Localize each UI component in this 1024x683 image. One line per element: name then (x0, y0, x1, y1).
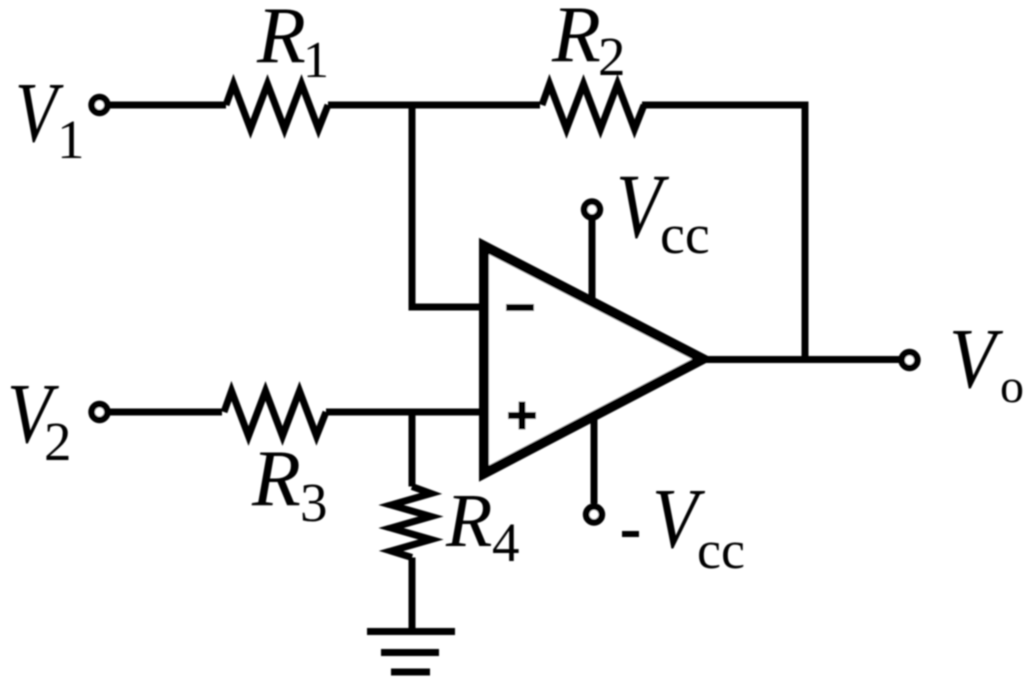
label R3 (251, 435, 328, 533)
wire R4 to ground (409, 558, 416, 632)
wire R1 to R2 (node A junction) (328, 102, 540, 109)
wire Vcc stem (589, 220, 596, 301)
label Vo (949, 310, 1024, 413)
node V2 input terminal (92, 404, 108, 420)
svg-text:cc: cc (697, 520, 745, 580)
svg-text:4: 4 (492, 512, 520, 573)
svg-text:2: 2 (598, 26, 626, 87)
wire node A down to inverting input (412, 105, 483, 307)
resistor R4 (391, 487, 431, 558)
svg-text:2: 2 (44, 411, 72, 472)
wire op-amp output to Vo terminal (699, 356, 899, 363)
svg-text:R: R (551, 0, 601, 79)
svg-text:cc: cc (660, 204, 710, 266)
label V2 (7, 367, 72, 472)
wire V1 terminal to R1 (110, 102, 226, 109)
node V1 input terminal (92, 97, 108, 113)
resistor R2 (542, 84, 644, 129)
op-amp U1 (484, 246, 703, 474)
svg-text:R: R (251, 435, 301, 523)
label R1 (256, 0, 329, 89)
svg-text:3: 3 (300, 472, 328, 533)
node Vcc terminal (584, 202, 600, 218)
svg-text:R: R (445, 479, 492, 563)
ground (367, 632, 455, 673)
wire R3 to noninverting input (node B junction) (326, 409, 483, 416)
svg-text:V: V (949, 310, 1004, 406)
wire node B down to R4 (409, 412, 416, 487)
label R2 (551, 0, 626, 87)
label -Vcc (622, 471, 745, 580)
resistor R3 (224, 391, 326, 436)
wire -Vcc stem (591, 414, 598, 504)
svg-text:1: 1 (57, 109, 85, 170)
label Vcc (616, 156, 710, 266)
label R4 (445, 479, 520, 573)
wire R2 to feedback corner, down to output node (642, 105, 805, 360)
resistor R1 (226, 84, 328, 129)
svg-text:o: o (1000, 360, 1024, 413)
op-amp U1 noninverting pin mark (508, 402, 536, 430)
node Vo output terminal (902, 352, 918, 368)
label V1 (15, 65, 85, 170)
op-amp U1 inverting pin mark (506, 304, 534, 311)
svg-text:1: 1 (303, 32, 329, 89)
svg-text:R: R (256, 0, 306, 80)
node -Vcc terminal (586, 507, 602, 523)
wire V2 terminal to R3 (110, 409, 222, 416)
